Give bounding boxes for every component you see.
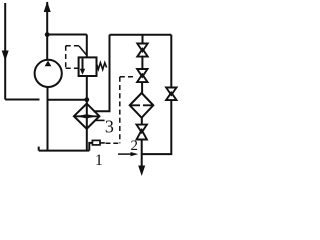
relief valve pilot dashed line: [66, 45, 79, 47]
wire: bottom-left horizontal from return line: [5, 99, 39, 101]
wire: between CV1 and CV2: [141, 57, 143, 69]
svg-text:1: 1: [95, 152, 103, 169]
relief valve V1 body: [79, 57, 97, 76]
svg-text:2: 2: [131, 138, 139, 154]
wire: CV3 down to outlet junction: [141, 140, 143, 167]
tank left wall stub: [38, 147, 40, 151]
wire: check valve column from top wire: [142, 35, 144, 44]
relief valve spring: [97, 63, 107, 70]
flow arrow (up) at pump outlet: [44, 2, 51, 13]
wire: pump suction down to tank: [47, 87, 49, 151]
flow arrow (down) on return line: [2, 51, 9, 62]
check valve CV4: [166, 88, 176, 101]
filter 2 diamond: [130, 93, 154, 118]
wire: right bypass column: [170, 35, 172, 88]
wire: step up from tank line to component 1: [89, 143, 92, 151]
relief valve internal arrow (down): [82, 59, 84, 71]
wire: vertical through filter 3 down to tank: [86, 100, 88, 151]
leader arrow for label 2: [118, 153, 132, 155]
pump flow triangle (filled, up): [45, 61, 52, 67]
wire: drop into relief valve top: [86, 35, 88, 58]
wire: CV2 down to filter 2: [141, 82, 143, 93]
wire: lead from component 1: [100, 142, 105, 144]
node: junction dot on pump outlet: [45, 32, 50, 37]
tank line bottom left: [39, 150, 90, 152]
wire: horizontal from pump line to junction dot: [47, 99, 88, 101]
check valve CV1: [137, 44, 147, 57]
pump P outlet line with up arrow: [46, 2, 48, 61]
dashed link from component 1 to enclosure 2: [106, 142, 120, 144]
dashed enclosure of unit 2: left side: [119, 77, 121, 143]
leader line for label 3: [95, 119, 104, 121]
wire: top horizontal to relief valve: [47, 34, 87, 36]
wire: bypass column down and left to outlet: [142, 100, 172, 154]
wire: filter 2 down to CV3: [141, 118, 143, 125]
filter 3 element (thick bar): [75, 115, 100, 117]
dashed enclosure of unit 2: top side: [120, 76, 136, 78]
pump U (circle): [35, 60, 62, 87]
filter 3 diamond: [74, 104, 100, 129]
check valve CV3: [137, 125, 147, 140]
component 1 box: [92, 140, 100, 145]
node: junction dot above filter 3: [84, 97, 89, 102]
wire: left return line vertical: [4, 3, 6, 100]
wire: relief valve outlet down to junction: [86, 76, 88, 100]
svg-text:3: 3: [105, 116, 114, 136]
wire: top wire of right network: [110, 34, 172, 36]
check valve CV2: [137, 69, 147, 82]
flow arrow (down) at unit 2 outlet: [138, 166, 145, 177]
wire: right branch from top wire down and left into filter 3: [94, 35, 110, 112]
filter 2 dashed element: [131, 104, 153, 106]
